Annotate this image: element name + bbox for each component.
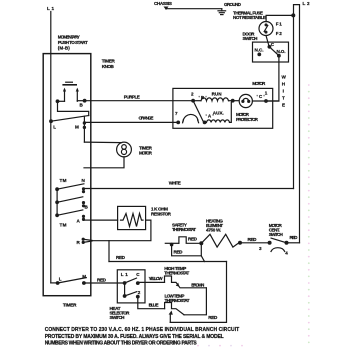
label timer knob	[102, 59, 116, 70]
wire yellow	[138, 276, 165, 282]
wire blue	[138, 297, 165, 309]
wire fuse to door switch C	[266, 36, 269, 47]
thermostat high temp	[164, 266, 206, 288]
wire resistor to R contact	[92, 220, 151, 241]
note bottom text	[45, 327, 240, 347]
timer box	[43, 54, 91, 296]
wire cent switch to L2	[287, 242, 300, 244]
thermal fuse F1 F2	[233, 11, 282, 37]
ground	[218, 2, 242, 15]
wire white door switch to motor terminal 1	[266, 56, 279, 101]
motor start switch and aux winding	[175, 101, 231, 125]
switch momentary push-to-start	[56, 82, 87, 107]
thermostat safety	[165, 223, 201, 247]
switch timer L-M lever	[49, 116, 89, 130]
switch motor centrifugal	[259, 223, 298, 256]
node heater left junction	[199, 241, 203, 245]
wire heater junction drop	[200, 245, 202, 256]
wire chassis to ground	[166, 8, 222, 10]
wire orange	[84, 116, 178, 123]
resistor 1K OHM	[91, 206, 172, 229]
wire red R drop	[109, 241, 126, 262]
wire brown drop	[184, 288, 206, 315]
node L2	[294, 1, 310, 243]
wire L1 lead down into timer	[50, 12, 52, 283]
motor box	[173, 88, 273, 128]
wire red timer M to heat selector	[51, 274, 125, 285]
net WHITE vertical label	[282, 75, 287, 108]
wire right side down	[170, 262, 226, 323]
scan artifacts	[197, 84, 310, 346]
switch timer TM contacts	[55, 178, 92, 245]
wire safety bypass	[172, 245, 205, 262]
switch heat selector	[110, 270, 146, 320]
thermostat low temp	[165, 293, 190, 315]
door switch	[243, 32, 289, 63]
wire junction bus to heater	[109, 261, 227, 263]
wire protector to terminal 1	[252, 91, 279, 103]
wire white timer to L2	[84, 181, 294, 189]
wire low-temp lever leg	[169, 311, 173, 323]
node L1	[47, 6, 54, 11]
label momentary push to start	[58, 35, 88, 51]
junction on L2	[291, 13, 295, 17]
motor protector	[236, 94, 259, 121]
timer motor	[84, 142, 153, 168]
wire heater to cent switch	[240, 242, 270, 244]
motor run winding	[191, 91, 239, 102]
heating element 4750W	[201, 219, 257, 248]
wire L2 to thermal fuse	[266, 15, 293, 21]
wire M contact branch	[83, 116, 86, 142]
wire left contact drop	[58, 101, 89, 115]
wire purple	[85, 95, 194, 101]
node chassis	[154, 1, 172, 10]
